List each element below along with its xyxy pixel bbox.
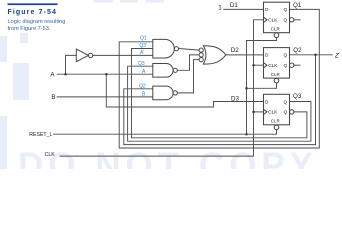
svg-text:Q: Q <box>284 110 288 115</box>
svg-text:CLR: CLR <box>271 119 281 124</box>
svg-text:Q2: Q2 <box>293 47 302 54</box>
svg-text:Z: Z <box>334 53 339 60</box>
svg-text:CLR: CLR <box>271 72 281 77</box>
svg-text:D3: D3 <box>231 95 239 102</box>
svg-text:D: D <box>265 53 269 58</box>
svg-text:RESET_L: RESET_L <box>29 132 52 138</box>
svg-text:Q: Q <box>284 53 288 58</box>
svg-text:CLK: CLK <box>268 18 278 23</box>
svg-text:Q1: Q1 <box>293 2 302 9</box>
svg-text:from Figure 7-53.: from Figure 7-53. <box>8 26 51 32</box>
svg-text:CLK: CLK <box>45 152 56 158</box>
svg-text:D: D <box>265 99 269 104</box>
svg-text:Logic diagram resulting: Logic diagram resulting <box>8 19 66 25</box>
svg-text:Q: Q <box>284 18 288 23</box>
svg-text:Q1: Q1 <box>140 36 147 42</box>
svg-text:Q: Q <box>284 7 288 12</box>
svg-text:CLK: CLK <box>268 110 278 115</box>
svg-text:1: 1 <box>218 5 222 12</box>
svg-text:DO NOT COPY: DO NOT COPY <box>18 146 318 169</box>
svg-text:Q: Q <box>284 99 288 104</box>
svg-text:D2: D2 <box>231 47 239 54</box>
svg-text:D1: D1 <box>230 2 238 9</box>
svg-text:Q: Q <box>284 63 288 68</box>
svg-text:CLK: CLK <box>268 63 278 68</box>
svg-text:D: D <box>265 7 269 12</box>
svg-text:Q3′: Q3′ <box>139 43 147 49</box>
svg-text:Figure 7-54: Figure 7-54 <box>8 9 57 16</box>
svg-text:CLR: CLR <box>271 26 281 31</box>
svg-text:A′: A′ <box>140 50 144 56</box>
svg-text:Q3: Q3 <box>293 93 302 100</box>
svg-text:A: A <box>50 71 55 78</box>
svg-text:Q2: Q2 <box>139 83 146 89</box>
svg-text:Q3: Q3 <box>138 61 145 67</box>
svg-text:B: B <box>51 94 55 101</box>
